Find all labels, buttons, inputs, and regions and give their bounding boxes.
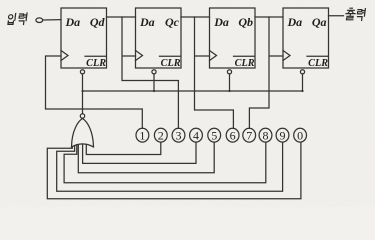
wire gate input from node 8 xyxy=(64,142,266,183)
label U2 Qc xyxy=(165,15,180,29)
node 2 xyxy=(154,128,167,142)
node 7 xyxy=(243,128,256,142)
label 입력 xyxy=(8,13,27,25)
wire U4 CLR drop xyxy=(302,74,304,91)
wire U2.Qc to U3.Da xyxy=(181,16,210,18)
wire U2 CLR drop xyxy=(153,74,155,91)
node 9 xyxy=(276,128,289,142)
input terminal 입력 xyxy=(36,18,43,23)
label U2 CLR xyxy=(161,58,181,69)
wire CLR bus xyxy=(83,90,303,92)
wire gate input from node 4 xyxy=(83,142,196,163)
wire gate input from node 2 xyxy=(86,142,161,154)
label U3 Qb xyxy=(238,15,253,29)
wire U4 clock from Qb node xyxy=(249,17,283,128)
NOR gate G1 xyxy=(72,114,94,147)
label U4 Qa xyxy=(312,15,327,29)
digit 9 xyxy=(280,128,286,142)
junction U4 CLR xyxy=(301,90,303,92)
wire U3 clock from Qc node xyxy=(195,17,234,128)
digit 0 xyxy=(297,128,303,142)
node 0 xyxy=(294,128,307,142)
wire U1 clock feed from node 1 xyxy=(46,56,143,128)
node 1 xyxy=(136,128,149,142)
node 3 xyxy=(172,128,185,142)
label U2 Da xyxy=(139,15,155,29)
node 8 xyxy=(259,128,272,142)
wire U3 CLR drop xyxy=(229,74,231,91)
label 출력 xyxy=(345,8,365,20)
wire gate input from node 9 xyxy=(57,142,283,191)
junction U2 CLR xyxy=(153,90,155,92)
digit 8 xyxy=(263,128,269,142)
digit 3 xyxy=(176,128,182,142)
label U3 CLR xyxy=(235,58,255,69)
digit 5 xyxy=(211,128,217,142)
label U3 Da xyxy=(213,15,229,29)
junction U3 CLR xyxy=(228,90,230,92)
flip-flop U3 xyxy=(210,8,256,74)
label U4 Da xyxy=(287,15,303,29)
label U1 Qd xyxy=(90,15,106,29)
digit 2 xyxy=(158,128,164,142)
wire U1 CLR to gate output bubble xyxy=(82,74,84,114)
wire input to U1 xyxy=(43,19,61,21)
label U4 CLR xyxy=(308,58,328,69)
node 4 xyxy=(190,128,203,142)
label U1 Da xyxy=(65,15,81,29)
flip-flop U1 xyxy=(61,8,107,74)
wire gate input from node 5 xyxy=(78,142,214,173)
flip-flop U4 xyxy=(283,8,329,74)
wire U3.Qb to U4.Da xyxy=(255,16,283,18)
node 5 xyxy=(208,128,221,142)
wire U1.Qd to U2.Da xyxy=(107,16,136,18)
wire U4.Qa output xyxy=(329,15,344,17)
digit 6 xyxy=(230,128,236,142)
node 6 xyxy=(226,128,239,142)
wire gate input from node 0 xyxy=(47,142,301,199)
digit 7 xyxy=(246,128,252,142)
junction U1 CLR xyxy=(81,90,83,92)
label U1 CLR xyxy=(86,58,106,69)
digit 1 xyxy=(139,128,145,142)
flip-flop U2 xyxy=(136,8,182,74)
digit 4 xyxy=(193,128,199,142)
wire U2 clock from Qd node xyxy=(122,17,178,128)
